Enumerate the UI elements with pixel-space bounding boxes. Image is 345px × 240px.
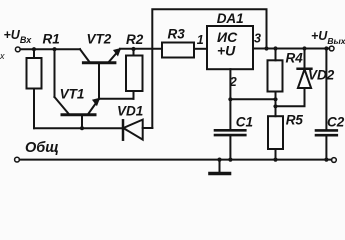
- svg-text:R3: R3: [168, 27, 186, 42]
- svg-text:C1: C1: [236, 114, 253, 129]
- svg-text:VT2: VT2: [87, 32, 112, 47]
- resistor R3: [162, 43, 194, 58]
- svg-text:DA1: DA1: [217, 11, 244, 26]
- svg-text:1: 1: [197, 33, 204, 47]
- node R2 top: [131, 47, 135, 51]
- capacitor C2: [325, 49, 327, 131]
- svg-text:C2: C2: [327, 114, 345, 129]
- node R4 top: [273, 46, 277, 50]
- wire: VT2 base to R2 bottom: [99, 98, 134, 100]
- node VT1 collector on rail: [52, 47, 56, 51]
- ground node: [217, 158, 221, 162]
- node C2 bottom: [324, 158, 328, 162]
- common terminal left: [15, 157, 20, 162]
- svg-text:VT1: VT1: [60, 87, 85, 102]
- capacitor C1: [215, 129, 245, 132]
- svg-text:+U: +U: [217, 43, 236, 59]
- node C2 top: [324, 46, 328, 50]
- svg-text:R4: R4: [286, 51, 304, 66]
- ground symbol: [219, 160, 221, 173]
- node pin2 line at C1: [228, 97, 232, 101]
- diode VD1 cathode bar: [122, 120, 125, 139]
- diode VD2: [298, 69, 311, 88]
- node R1 top: [32, 47, 36, 51]
- svg-text:R5: R5: [286, 112, 304, 127]
- VT1 emitter arrow: [93, 98, 100, 105]
- svg-text:2: 2: [229, 75, 237, 89]
- node R5 bottom: [273, 158, 277, 162]
- common terminal right: [332, 158, 337, 163]
- resistor R5: [268, 116, 283, 149]
- node VT1 base: [80, 126, 84, 130]
- svg-text:Общ: Общ: [25, 140, 59, 156]
- svg-text:+UВых: +UВых: [311, 29, 345, 46]
- node VD2 top: [302, 46, 306, 50]
- transistor VT1: [54, 49, 56, 97]
- node feedback on output rail: [264, 46, 268, 50]
- svg-text:+UВх: +UВх: [4, 28, 33, 45]
- resistor R4: [275, 49, 277, 61]
- common (ground) rail: [20, 159, 332, 161]
- VT2 emitter arrow: [114, 49, 121, 56]
- svg-text:3: 3: [254, 32, 261, 46]
- diode VD2 cathode bar: [298, 68, 312, 71]
- resistor R1: [33, 49, 35, 58]
- node R4 bottom: [273, 97, 277, 101]
- wire: R1 / VT1 base / VD1 line: [34, 127, 123, 129]
- wire: rail from VT2 to R3: [120, 48, 162, 50]
- wire: VD2 anode line: [276, 88, 305, 106]
- resistor R2: [133, 49, 135, 56]
- wire: input rail to VT2: [20, 48, 80, 50]
- node C1 bottom: [228, 158, 232, 162]
- pin 2 wire DA1: [229, 69, 231, 130]
- node VD2 branch: [273, 104, 277, 108]
- svg-text:R2: R2: [126, 32, 144, 47]
- diode VD1: [123, 120, 142, 140]
- svg-text:x: x: [0, 51, 5, 61]
- svg-text:R1: R1: [43, 32, 60, 47]
- output terminal +UBыx: [329, 46, 334, 51]
- svg-text:VD1: VD1: [117, 104, 143, 119]
- wire: DA1 pin3 to output terminal: [253, 48, 329, 50]
- wire: feedback loop VD1 anode to DA1 pin3 node: [152, 9, 266, 128]
- transistor VT2: [80, 49, 90, 62]
- op-amp (IC) DA1 box: [207, 26, 253, 69]
- svg-text:VD2: VD2: [308, 68, 335, 83]
- input terminal +UBx: [15, 47, 20, 52]
